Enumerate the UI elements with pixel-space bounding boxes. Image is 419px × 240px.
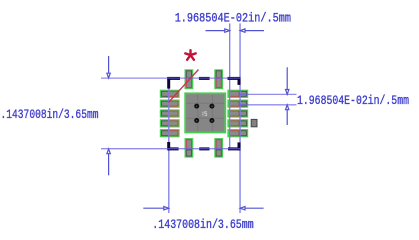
pad R5 — [227, 129, 248, 137]
pad inner edge extension line — [229, 23, 231, 148]
pad R1 — [227, 90, 248, 98]
pad L1 — [160, 90, 180, 98]
body left edge extended down — [168, 78, 170, 213]
body bottom edge extended left — [101, 148, 241, 150]
pad B2 — [214, 138, 223, 158]
package body dashed outline — [167, 77, 240, 150]
bottom dimension line — [143, 207, 164, 209]
thermal pad grid seams — [186, 94, 224, 131]
top dimension line — [206, 30, 226, 32]
pad L5 — [160, 129, 180, 137]
extension lines vertical (body left/right edges extended, pad tip line) — [169, 23, 240, 213]
right dimension line — [286, 67, 288, 90]
dimension lines with arrows — [107, 29, 289, 210]
pad L4 — [160, 119, 180, 127]
thermal pad number 15 — [203, 112, 207, 116]
thermal vias — [194, 104, 214, 123]
pad R2 — [227, 100, 248, 108]
top edge dashes — [167, 77, 180, 80]
top pads (pins) — [185, 69, 224, 89]
left dimension line — [108, 56, 110, 73]
pad T2 — [214, 69, 223, 89]
pad T1 — [185, 69, 194, 89]
pad L3 — [160, 109, 180, 117]
pad B1 — [185, 138, 194, 158]
bottom edge dashes — [168, 147, 179, 150]
pad L2 — [160, 100, 180, 108]
pin1 indicator red line — [169, 70, 199, 103]
right pads (pins) — [227, 90, 248, 138]
svg-text:.1437008in/3.65mm: .1437008in/3.65mm — [152, 218, 253, 232]
svg-text:1.968504E-02in/.5mm: 1.968504E-02in/.5mm — [297, 94, 409, 108]
svg-text:.1437008in/3.65mm: .1437008in/3.65mm — [1, 108, 99, 122]
extension lines horizontal (body top/bottom edges extended, pitch lines) — [101, 78, 297, 149]
center thermal pad — [184, 92, 226, 133]
body right edge extended up and down — [239, 23, 241, 213]
bottom pads (pins) — [185, 138, 224, 158]
corner vertical arms — [167, 77, 170, 89]
pin1 asterisk — [185, 50, 195, 60]
right dim extension lines — [239, 93, 297, 95]
pad R3 — [227, 109, 248, 117]
small pad right of package — [251, 119, 257, 126]
pad R4 — [227, 119, 248, 127]
body top edge extended left — [101, 77, 241, 79]
svg-text:1.968504E-02in/.5mm: 1.968504E-02in/.5mm — [175, 12, 291, 26]
left pads (pins) — [160, 90, 180, 138]
